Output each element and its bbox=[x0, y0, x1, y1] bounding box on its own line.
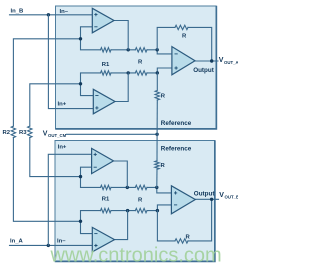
svg-text:R3: R3 bbox=[19, 130, 27, 136]
svg-text:OUT_A: OUT_A bbox=[224, 60, 238, 65]
svg-text:In+: In+ bbox=[58, 145, 67, 151]
wire reference rail block A bbox=[156, 100, 158, 134]
node In_A junction bbox=[47, 244, 50, 247]
op-amp A1 bbox=[92, 8, 114, 33]
wire to A3b plus input bbox=[147, 187, 172, 193]
node A1b minus external bbox=[79, 175, 82, 178]
resistor R feedback (block A) bbox=[175, 25, 188, 29]
svg-text:In_B: In_B bbox=[11, 8, 24, 14]
node A3b output bbox=[210, 198, 213, 201]
svg-text:Reference: Reference bbox=[161, 120, 192, 127]
wire A3 feedback top bbox=[157, 27, 175, 49]
resistor R upper input (block A) bbox=[135, 48, 147, 52]
label V_OUT_CM bbox=[43, 130, 67, 138]
svg-text:Output: Output bbox=[193, 67, 215, 74]
resistor R feedback (block B) bbox=[175, 239, 188, 243]
wire In_A rail up to In+ pin of block B bbox=[48, 154, 92, 245]
wire A1 inverting feedback path bbox=[81, 27, 101, 50]
svg-text:R1: R1 bbox=[102, 62, 110, 68]
wire R2 rail (A1 minus node to A2b minus node) bbox=[13, 39, 80, 126]
A3b minus bbox=[174, 204, 177, 206]
label V_OUT_A bbox=[219, 57, 239, 65]
wire In_B input bbox=[10, 14, 93, 16]
op-amp A2b bbox=[92, 227, 114, 251]
wire to A3 minus input bbox=[147, 50, 172, 54]
wire A1b inverting feedback path bbox=[81, 167, 101, 187]
wire R3 rail (A2 minus node to A1b minus node) bbox=[30, 84, 81, 126]
A1 minus bbox=[94, 26, 97, 28]
A2 plus bbox=[95, 106, 98, 109]
wire R2 rail lower bbox=[13, 138, 80, 222]
A3 minus bbox=[175, 53, 178, 55]
svg-text:OUT_B: OUT_B bbox=[225, 195, 239, 200]
A3 plus bbox=[175, 66, 178, 69]
op-amp polarity marks bbox=[94, 13, 178, 247]
node A2 output bbox=[127, 71, 130, 74]
svg-text:R: R bbox=[138, 59, 143, 65]
node A1b output bbox=[126, 186, 129, 189]
wire R3 rail lower bbox=[30, 138, 81, 177]
node A1 minus external bbox=[79, 37, 82, 40]
wire to A3 plus input bbox=[147, 68, 172, 73]
node A1 output bbox=[127, 48, 130, 51]
wire A3 feedback to output bbox=[188, 27, 212, 61]
op-amp A3b difference amp block B bbox=[171, 186, 195, 214]
resistor R upper input (block B) bbox=[135, 185, 147, 189]
wire A1b output bbox=[114, 161, 128, 187]
wire reference rail block B bbox=[156, 134, 158, 161]
wire A2b output node line bbox=[111, 210, 135, 212]
svg-text:In_A: In_A bbox=[10, 239, 24, 245]
node A3 minus summing bbox=[156, 48, 159, 51]
in-amp A block outline bbox=[56, 6, 217, 129]
resistor R1 lower (block A) bbox=[101, 71, 112, 75]
wire A2 inverting feedback path bbox=[81, 73, 101, 96]
resistor R ground leg (block B) bbox=[155, 161, 159, 170]
svg-text:R: R bbox=[182, 33, 187, 39]
wire A2b output bbox=[115, 211, 128, 240]
op-amp A3 difference amp block A bbox=[172, 47, 195, 75]
svg-text:R: R bbox=[138, 197, 143, 203]
wire A3b output to V_OUT_B bbox=[195, 198, 218, 200]
node In_B junction bbox=[47, 13, 50, 16]
wire A2 output bbox=[115, 73, 128, 102]
resistor R ground leg (block A) bbox=[155, 73, 159, 100]
wire A3b feedback bottom bbox=[157, 211, 175, 241]
A2b plus bbox=[94, 244, 97, 247]
node A3b minus summing bbox=[156, 209, 159, 212]
svg-text:OUT_CM: OUT_CM bbox=[48, 133, 67, 138]
node A2 minus external bbox=[79, 82, 82, 85]
node A2b output bbox=[126, 209, 129, 212]
svg-text:R2: R2 bbox=[3, 130, 11, 136]
svg-text:Output: Output bbox=[194, 190, 216, 197]
resistor R1 upper (block B) bbox=[101, 185, 112, 189]
wire A2b inverting feedback path bbox=[81, 211, 101, 234]
svg-text:R: R bbox=[161, 94, 166, 100]
resistor R1 lower (block B) bbox=[101, 208, 112, 212]
wire In_B rail down to In+ pin of block A bbox=[48, 15, 93, 109]
A1 plus bbox=[94, 13, 97, 16]
wire A3b feedback to output bbox=[188, 199, 212, 241]
node A3b plus summing bbox=[155, 186, 158, 189]
svg-text:Reference: Reference bbox=[161, 145, 192, 152]
A1b minus bbox=[94, 166, 97, 168]
node V_OUT_CM junction bbox=[155, 133, 158, 136]
wire A1 output node line bbox=[111, 49, 135, 51]
A1b plus bbox=[94, 153, 97, 156]
resistor R2 bbox=[11, 126, 15, 138]
wire A1 output bbox=[114, 21, 128, 50]
wire A1b output node line bbox=[111, 186, 135, 188]
svg-text:In–: In– bbox=[60, 9, 69, 15]
op-amp A2 bbox=[93, 89, 115, 114]
svg-text:R: R bbox=[186, 234, 191, 240]
svg-text:R1: R1 bbox=[102, 197, 110, 203]
resistor R lower input (block B) bbox=[135, 208, 147, 212]
svg-text:www.cntronics.com: www.cntronics.com bbox=[50, 244, 222, 266]
in-amp B block outline bbox=[55, 141, 215, 262]
node A3 plus summing bbox=[156, 71, 159, 74]
A2 minus bbox=[95, 95, 98, 97]
wire A3 output to V_OUT_A bbox=[195, 60, 218, 62]
wire R ground leg to plus node (block B) bbox=[156, 169, 158, 187]
label V_OUT_B bbox=[219, 192, 239, 200]
node A3 output bbox=[210, 59, 213, 62]
wire A2 output node line bbox=[111, 72, 135, 74]
wire In_A input bbox=[10, 244, 93, 246]
wire V_OUT_CM sense line bbox=[67, 133, 158, 135]
A3b plus bbox=[174, 191, 177, 194]
op-amp A1b bbox=[92, 148, 114, 173]
resistor R1 upper (block A) bbox=[101, 48, 112, 52]
svg-text:In+: In+ bbox=[58, 101, 67, 107]
node A2b minus external bbox=[79, 220, 82, 223]
wire to A3b minus input bbox=[147, 205, 172, 211]
A2b minus bbox=[94, 233, 97, 235]
resistor R3 bbox=[28, 126, 32, 138]
svg-text:R: R bbox=[161, 163, 166, 169]
resistor R lower input (block A) bbox=[135, 71, 147, 75]
